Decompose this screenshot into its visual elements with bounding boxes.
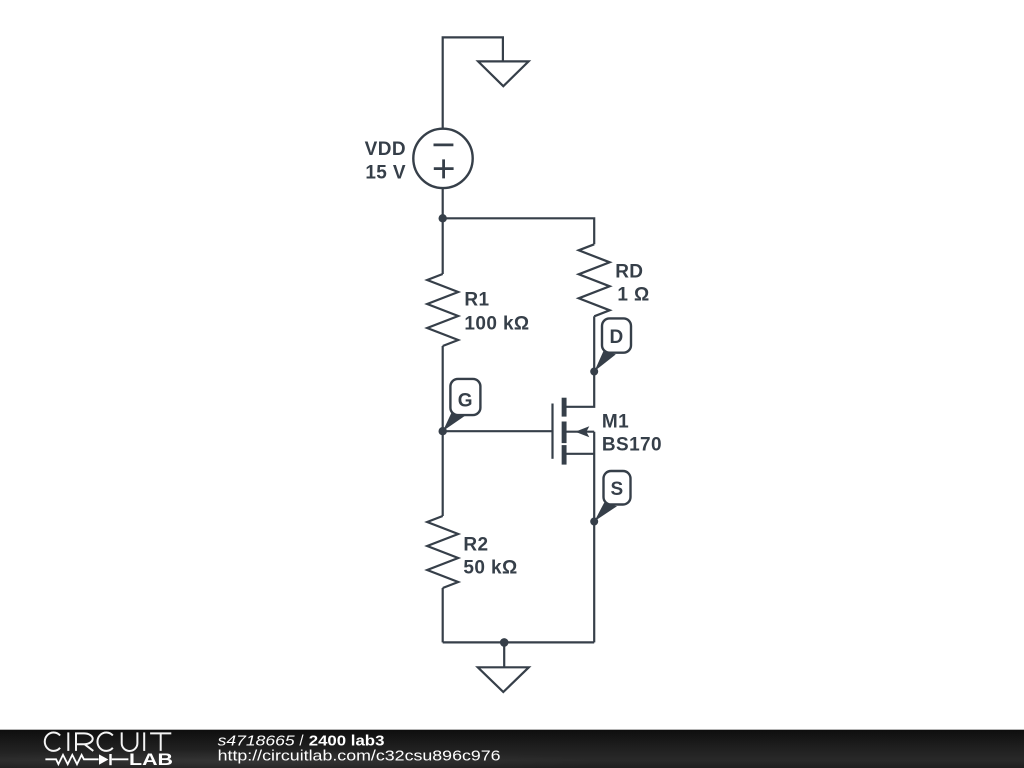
- svg-text:M1: M1: [602, 412, 629, 433]
- svg-text:VDD: VDD: [365, 139, 406, 160]
- wire S node to ground rail: [593, 522, 595, 643]
- junction node G: [439, 427, 447, 435]
- terminal label S: [594, 471, 630, 521]
- junction node D: [590, 368, 598, 376]
- junction node S: [590, 518, 598, 526]
- footer bar: [0, 729, 1024, 730]
- svg-text:BS170: BS170: [602, 435, 662, 456]
- svg-text:S: S: [610, 479, 623, 500]
- svg-text:D: D: [609, 327, 623, 348]
- svg-text:R1: R1: [464, 290, 489, 311]
- wire gate node to R2: [442, 431, 444, 516]
- ground (bottom): [478, 667, 529, 692]
- svg-text:100 kΩ: 100 kΩ: [464, 313, 529, 334]
- svg-text:http://circuitlab.com/c32csu89: http://circuitlab.com/c32csu896c976: [218, 748, 501, 765]
- wire VDD bottom to node: [442, 189, 444, 219]
- resistor R2: [427, 516, 458, 588]
- wire R2 to ground rail: [442, 588, 444, 642]
- transistor M1 BS170: [553, 372, 595, 522]
- wire node to RD branch: [443, 218, 595, 244]
- terminal label D: [594, 318, 631, 371]
- svg-text:15 V: 15 V: [365, 162, 406, 183]
- wire R1 to gate node: [442, 346, 444, 431]
- junction node VDD/R1/RD: [439, 214, 447, 222]
- svg-text:G: G: [458, 390, 473, 411]
- resistor R1: [427, 274, 458, 346]
- wire ground rail: [443, 641, 595, 643]
- ground (top): [478, 61, 528, 86]
- wire gate node to M1 gate: [443, 430, 553, 432]
- svg-text:RD: RD: [615, 262, 643, 283]
- svg-text:LAB: LAB: [129, 750, 173, 768]
- terminal label G: [443, 379, 481, 431]
- svg-text:R2: R2: [463, 535, 488, 556]
- logo resistor-diode squiggle: [45, 754, 128, 765]
- junction node ground: [500, 638, 509, 647]
- svg-text:50 kΩ: 50 kΩ: [463, 557, 517, 578]
- wire RD to drain node: [593, 316, 595, 371]
- svg-text:1 Ω: 1 Ω: [617, 285, 649, 306]
- wire ground rail to ground symbol: [503, 642, 505, 667]
- resistor RD: [579, 244, 610, 316]
- wire node to R1: [442, 218, 444, 274]
- voltage source VDD 15V: [413, 129, 472, 188]
- wire VDD top to top ground: [443, 37, 503, 129]
- logo CIRCUIT: [45, 732, 172, 751]
